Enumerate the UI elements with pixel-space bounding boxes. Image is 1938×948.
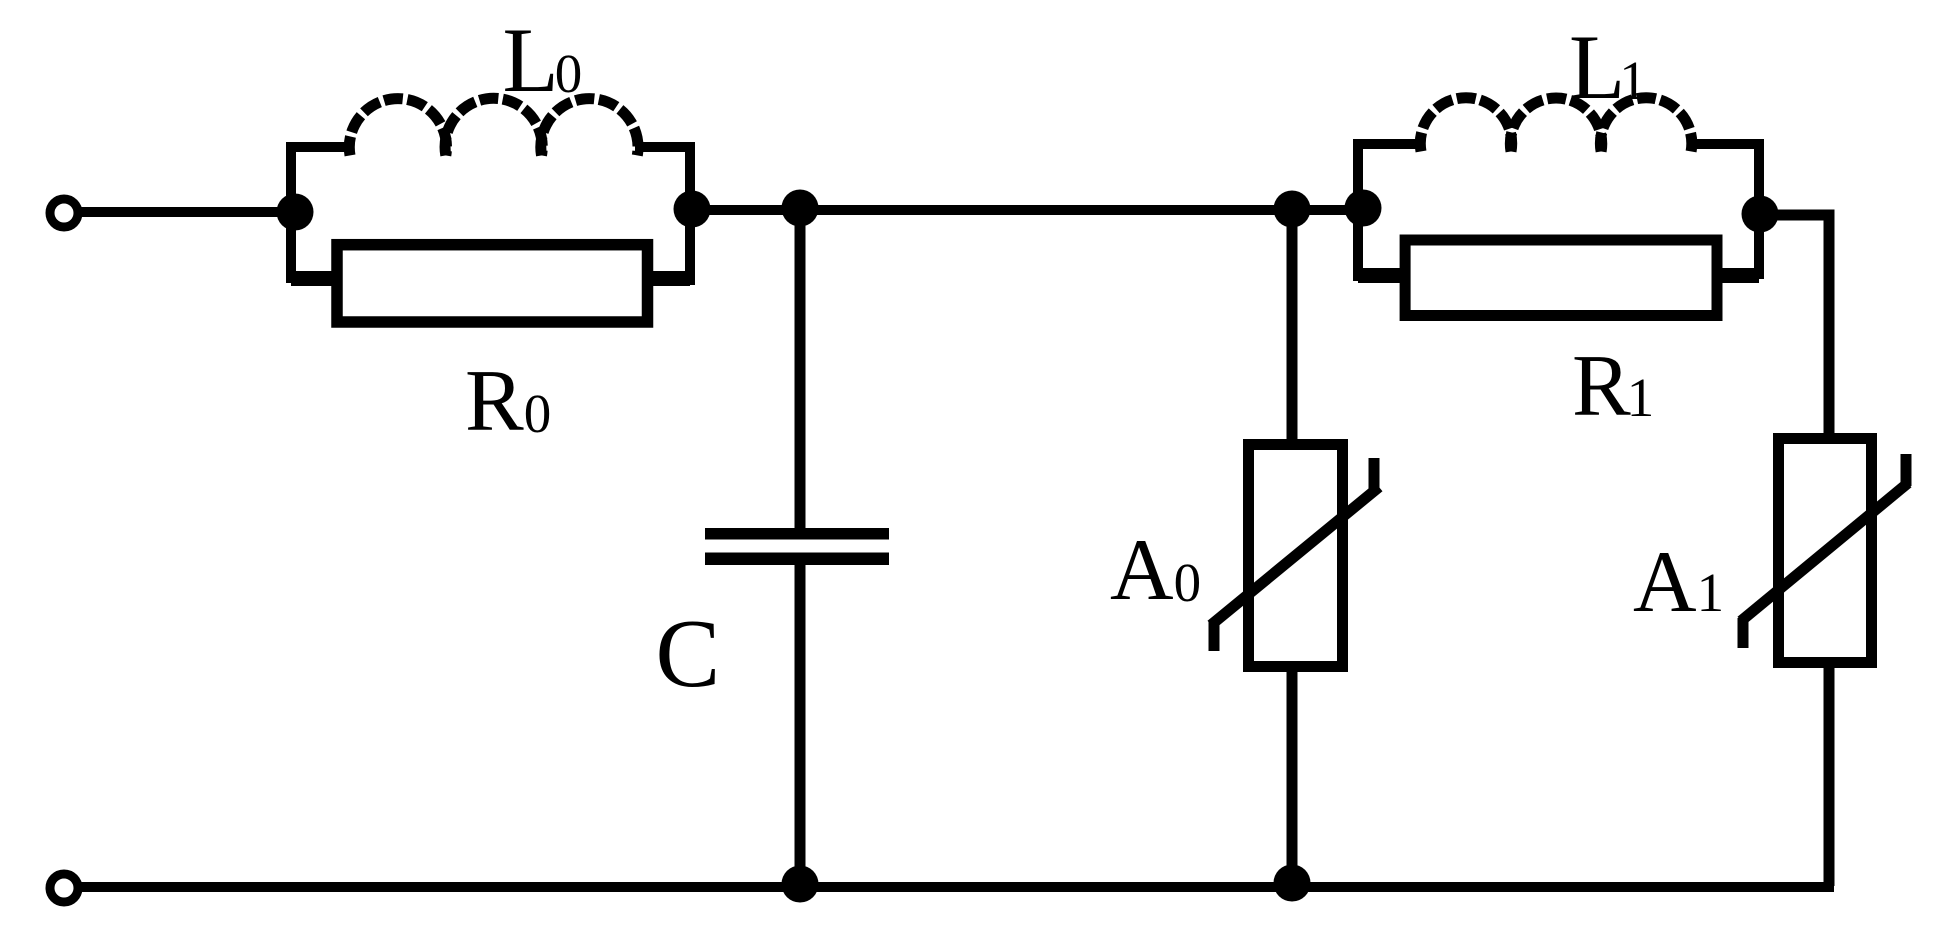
node (right node of L0/R0 parallel)	[674, 191, 711, 228]
node (right node of L1/R1 parallel)	[1742, 196, 1779, 233]
node (left node of L1/R1 parallel)	[1345, 190, 1382, 227]
inductor L1 (dashed humps)	[1420, 98, 1691, 152]
wire (A1 bottom lead)	[1824, 662, 1835, 886]
label A0	[1110, 522, 1201, 619]
wire (L1/R1 parallel frame, left side)	[1353, 139, 1423, 281]
label R1	[1572, 338, 1654, 435]
wire (L1 right node to A1 branch corner)	[1760, 215, 1829, 438]
wire (top rail from L0 block to L1 block)	[690, 205, 1363, 215]
varistor A0 diagonal bar with end hooks	[1211, 458, 1379, 651]
node (A0 bottom junction)	[1274, 865, 1311, 902]
label L1	[1569, 16, 1647, 118]
label A1	[1633, 534, 1724, 631]
label R0	[465, 353, 551, 450]
wire (L0/R0 parallel frame, right side)	[635, 142, 695, 285]
wire (A0 top lead)	[1287, 209, 1298, 444]
inductor L0 (dashed humps)	[349, 98, 638, 155]
node (left node of L0/R0 parallel)	[277, 194, 314, 231]
terminal T2 (bottom-left)	[50, 874, 78, 902]
terminal T1 (top-left input)	[50, 199, 78, 227]
node (capacitor top tap)	[782, 190, 819, 227]
wire (A0 bottom lead)	[1287, 666, 1298, 886]
wire (L0/R0 parallel frame, left side)	[286, 142, 352, 283]
varistor A0 (rectangle)	[1249, 445, 1343, 667]
wire (top-left terminal to node)	[78, 207, 300, 217]
wire (capacitor top lead)	[795, 208, 806, 528]
svg-text:C: C	[656, 600, 721, 707]
resistor R1	[1405, 240, 1717, 316]
capacitor C (two plates)	[705, 534, 889, 559]
wire (L1/R1 parallel frame, right side)	[1689, 139, 1764, 279]
varistor A1 diagonal bar with end hooks	[1741, 454, 1908, 648]
node (capacitor bottom junction)	[782, 866, 819, 903]
wire (bottom rail)	[78, 882, 1834, 892]
resistor R0	[337, 245, 648, 322]
wire (capacitor bottom lead)	[795, 565, 806, 886]
label L0	[503, 9, 583, 111]
label C	[656, 600, 721, 707]
node (A0 top tap)	[1274, 191, 1311, 228]
varistor A1 (rectangle)	[1779, 439, 1872, 663]
